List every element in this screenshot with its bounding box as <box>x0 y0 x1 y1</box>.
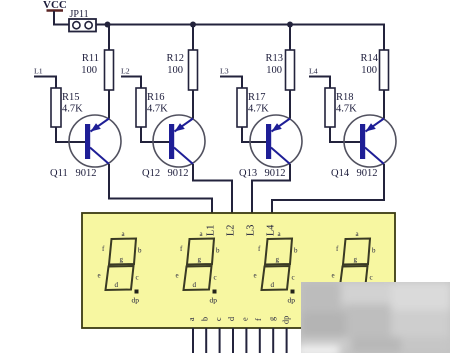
svg-text:d: d <box>115 281 119 289</box>
svg-text:e: e <box>241 317 250 321</box>
resistor R14 <box>360 50 388 90</box>
svg-text:L3: L3 <box>246 225 257 236</box>
wire R16 to Q12 base <box>141 127 169 142</box>
wire Q13 collector to display pin L3 <box>252 164 290 214</box>
svg-text:R17: R17 <box>248 92 266 103</box>
node junction rail-R13 <box>287 22 293 28</box>
power symbol VCC <box>43 0 67 11</box>
wire segment pin d <box>232 328 234 353</box>
resistor R16 <box>136 88 168 127</box>
resistor R15 <box>51 88 83 127</box>
wire R11 to Q11 emitter <box>108 90 110 119</box>
node junction rail-R12 <box>190 22 196 28</box>
svg-text:L1: L1 <box>206 225 217 236</box>
wire VCC to JP11 <box>54 11 69 25</box>
svg-text:4.7K: 4.7K <box>336 104 357 115</box>
svg-text:R11: R11 <box>82 53 99 64</box>
svg-text:c: c <box>136 274 139 282</box>
svg-text:Q13: Q13 <box>239 168 257 179</box>
svg-text:R16: R16 <box>147 92 165 103</box>
svg-text:100: 100 <box>167 65 183 76</box>
svg-text:dp: dp <box>210 296 218 305</box>
resistor R11 <box>81 50 113 90</box>
digit 1 segments <box>106 239 137 291</box>
connector JP11 <box>69 9 96 32</box>
wire rail to R13 <box>289 25 291 51</box>
svg-text:L2: L2 <box>226 225 237 236</box>
wire segment pin dp <box>286 328 288 353</box>
svg-text:Q14: Q14 <box>331 168 350 179</box>
svg-text:b: b <box>216 247 220 255</box>
wire segment pin b <box>205 328 207 353</box>
wire R13 to Q13 emitter <box>289 90 291 119</box>
wire segment pin c <box>219 328 221 353</box>
wire R14 to Q14 emitter <box>383 90 385 119</box>
svg-text:g: g <box>354 256 358 264</box>
wire VCC rail <box>96 25 384 51</box>
wire segment pin e <box>245 328 247 353</box>
svg-text:R15: R15 <box>62 92 80 103</box>
svg-text:L2: L2 <box>121 67 130 76</box>
svg-text:100: 100 <box>361 65 377 76</box>
resistor R12 <box>166 50 197 90</box>
wire L1 to R15 <box>34 77 56 89</box>
svg-text:100: 100 <box>81 65 97 76</box>
svg-text:e: e <box>98 272 101 280</box>
svg-text:L3: L3 <box>220 67 229 76</box>
svg-text:R14: R14 <box>360 53 378 64</box>
resistor R13 <box>265 50 294 90</box>
svg-text:4.7K: 4.7K <box>62 104 83 115</box>
svg-text:c: c <box>214 317 223 321</box>
7-segment display module body <box>82 213 395 328</box>
svg-text:a: a <box>187 317 196 321</box>
wire R12 to Q12 emitter <box>192 90 194 119</box>
svg-text:e: e <box>254 272 257 280</box>
wire Q12 collector to display pin L2 <box>193 164 232 214</box>
transistor Q11 <box>50 115 121 179</box>
svg-text:g: g <box>198 256 202 264</box>
svg-text:100: 100 <box>266 65 282 76</box>
digit 3 segments <box>262 239 293 291</box>
svg-text:d: d <box>193 281 197 289</box>
resistor R18 <box>325 88 357 127</box>
svg-text:f: f <box>254 318 263 321</box>
node junction rail-R11 <box>105 22 111 28</box>
transistor Q14 <box>331 115 396 179</box>
svg-text:c: c <box>292 274 295 282</box>
svg-text:9012: 9012 <box>76 168 97 179</box>
svg-text:Q11: Q11 <box>50 168 68 179</box>
svg-text:4.7K: 4.7K <box>248 104 269 115</box>
wire R15 to Q11 base <box>56 127 85 142</box>
wire segment pin g <box>272 328 274 353</box>
wire L4 to R18 <box>309 77 330 89</box>
svg-text:R18: R18 <box>336 92 354 103</box>
svg-text:e: e <box>332 272 335 280</box>
svg-text:9012: 9012 <box>265 168 286 179</box>
wire rail to R12 <box>192 25 194 51</box>
digit 2 segments <box>184 239 215 291</box>
svg-text:9012: 9012 <box>357 168 378 179</box>
svg-text:b: b <box>372 247 376 255</box>
wire segment pin f <box>259 328 261 353</box>
wire rail to R11 <box>108 25 110 51</box>
svg-text:b: b <box>200 317 209 321</box>
svg-text:c: c <box>370 274 373 282</box>
wire Q11 collector to display pin L1 <box>109 164 212 214</box>
svg-text:L1: L1 <box>34 67 43 76</box>
svg-text:dp: dp <box>288 296 296 305</box>
svg-text:e: e <box>176 272 179 280</box>
transistor Q13 <box>239 115 302 179</box>
wire L3 to R17 <box>220 77 242 89</box>
resistor R17 <box>237 88 269 127</box>
svg-text:b: b <box>294 247 298 255</box>
svg-text:dp: dp <box>132 296 140 305</box>
wire L2 to R16 <box>121 77 141 89</box>
svg-text:b: b <box>138 247 142 255</box>
svg-text:g: g <box>120 256 124 264</box>
svg-text:R12: R12 <box>166 53 184 64</box>
svg-text:R13: R13 <box>265 53 283 64</box>
wire segment pin a <box>192 328 194 353</box>
svg-text:L4: L4 <box>309 67 318 76</box>
svg-text:g: g <box>276 256 280 264</box>
svg-text:Q12: Q12 <box>142 168 160 179</box>
svg-text:4.7K: 4.7K <box>147 104 168 115</box>
svg-text:9012: 9012 <box>168 168 189 179</box>
transistor Q12 <box>142 115 205 179</box>
svg-text:d: d <box>227 317 236 321</box>
svg-text:L4: L4 <box>266 225 277 236</box>
wire R18 to Q14 base <box>330 127 360 142</box>
svg-text:d: d <box>271 281 275 289</box>
wire Q14 collector to display pin L4 <box>272 164 384 214</box>
svg-text:dp: dp <box>282 316 291 324</box>
svg-text:c: c <box>214 274 217 282</box>
svg-text:g: g <box>267 317 276 321</box>
digit 4 segments <box>340 239 371 291</box>
wire R17 to Q13 base <box>242 127 266 142</box>
